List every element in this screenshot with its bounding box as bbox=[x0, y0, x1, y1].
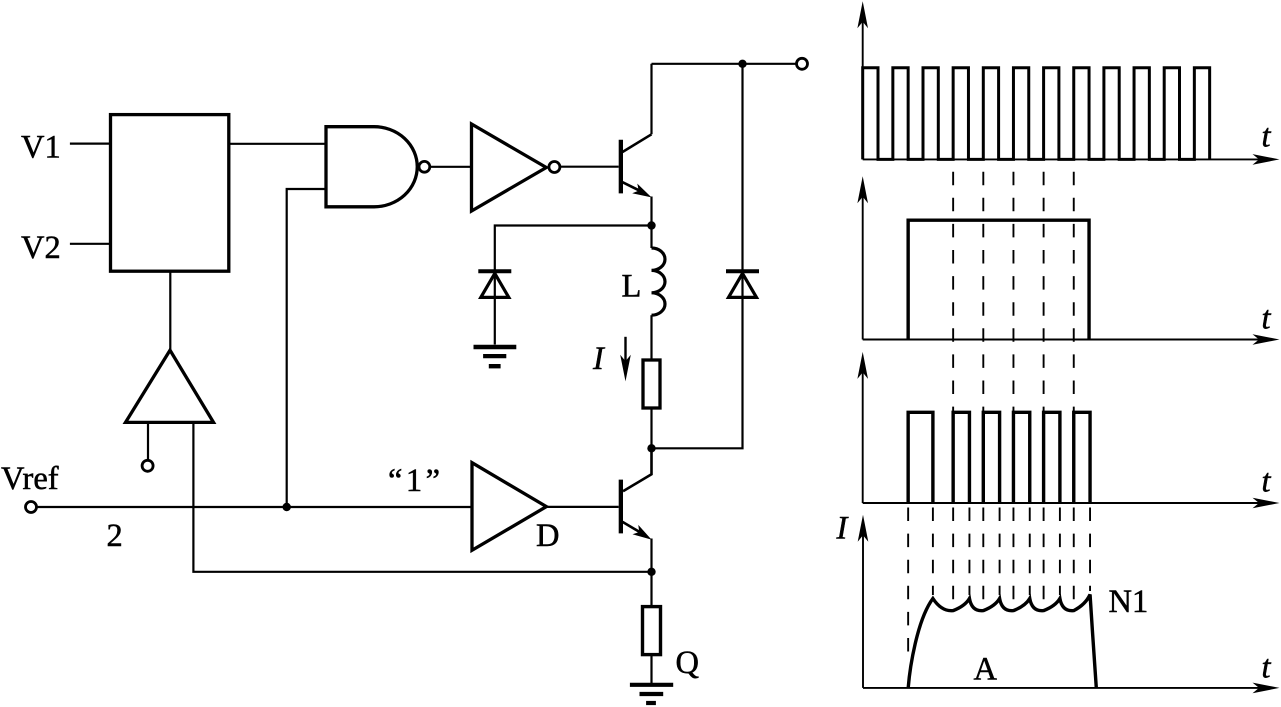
control block U1 bbox=[111, 115, 229, 272]
svg-text:I: I bbox=[836, 511, 850, 547]
buffer U4 bbox=[472, 463, 546, 551]
ground GND2 bbox=[630, 685, 673, 703]
wire Vref rail bbox=[36, 506, 472, 508]
inductor L1 bbox=[652, 226, 666, 361]
ground GND1 bbox=[474, 347, 517, 366]
axis plot3 vertical bbox=[857, 352, 868, 503]
svg-text:Q: Q bbox=[676, 645, 699, 681]
svg-text:A: A bbox=[974, 651, 998, 687]
svg-text:V2: V2 bbox=[21, 230, 61, 266]
wire inverter to Q1 base bbox=[560, 166, 619, 168]
wire buffer to Q2 base bbox=[546, 506, 618, 508]
axis plot2 vertical bbox=[857, 176, 868, 339]
wire Q1 collector up bbox=[650, 64, 652, 135]
waveform inductor current plot4 bbox=[908, 595, 1096, 688]
axis plot1 vertical bbox=[857, 1, 868, 159]
wire comparator input stub bbox=[147, 422, 149, 460]
terminal Vref bbox=[26, 502, 37, 513]
terminal comparator input bbox=[142, 460, 153, 471]
node Q2 emitter junction bbox=[647, 568, 655, 576]
resistor R2 bbox=[643, 607, 661, 655]
wire comparator to bottom rail bbox=[193, 422, 651, 571]
wire Q2 collector bbox=[623, 448, 652, 491]
svg-text:L: L bbox=[622, 269, 642, 305]
label I with arrow bbox=[592, 337, 631, 382]
wire R2 to ground bbox=[650, 655, 652, 683]
wire Q1 emitter down bbox=[650, 197, 652, 226]
svg-text:D: D bbox=[536, 518, 559, 554]
terminal output bbox=[797, 58, 808, 69]
svg-text:I: I bbox=[592, 341, 606, 377]
wire to clamp diode D1 and ground bbox=[495, 226, 652, 345]
wire top rail bbox=[652, 63, 797, 65]
axis plot3 horizontal bbox=[863, 498, 1280, 509]
node L top junction bbox=[647, 221, 655, 229]
svg-text:t: t bbox=[1262, 650, 1272, 686]
wire node to resistor R2 bbox=[650, 572, 652, 607]
axis plot1 horizontal bbox=[863, 154, 1280, 165]
waveform gated pulses plot3 bbox=[908, 412, 1090, 503]
resistor R1 bbox=[643, 360, 660, 408]
svg-text:Vref: Vref bbox=[1, 461, 59, 497]
node R1 bottom junction bbox=[647, 444, 655, 452]
node Vref junction bbox=[283, 503, 291, 511]
axis plot4 horizontal bbox=[863, 683, 1280, 694]
waveform gate pulse plot2 bbox=[908, 220, 1089, 339]
svg-text:2: 2 bbox=[107, 518, 123, 554]
wire U1 to NAND input A bbox=[229, 143, 326, 145]
svg-text:t: t bbox=[1262, 464, 1272, 500]
svg-text:N1: N1 bbox=[1109, 584, 1149, 620]
svg-text:t: t bbox=[1262, 118, 1272, 154]
diode D2 bbox=[726, 271, 759, 297]
wire R1 to node bbox=[650, 408, 652, 448]
comparator A1 bbox=[126, 350, 214, 422]
axis plot2 horizontal bbox=[863, 334, 1280, 345]
wire Q2 emitter down bbox=[650, 539, 652, 572]
NAND gate U2 bbox=[326, 127, 417, 207]
waveform clock pulses plot1 bbox=[863, 68, 1210, 160]
wire U1 to comparator bbox=[169, 271, 171, 350]
transistor Q1 bbox=[621, 134, 652, 197]
wire NAND to inverter bbox=[430, 166, 472, 168]
transistor Q2 bbox=[621, 480, 652, 540]
axis plot4 vertical bbox=[858, 515, 869, 688]
svg-text:“1”: “1” bbox=[388, 463, 444, 499]
dashed lines plot1 to plot3 bbox=[953, 172, 1074, 411]
wire NAND input B from Vref node bbox=[287, 189, 326, 507]
svg-text:t: t bbox=[1262, 301, 1272, 337]
wire V1 input bbox=[70, 143, 111, 145]
wire right branch down through diode D2 bbox=[652, 64, 743, 449]
diode D1 bbox=[478, 271, 511, 297]
wire V2 input bbox=[70, 243, 111, 245]
node top rail junction bbox=[738, 60, 746, 68]
inverter U3 bbox=[472, 124, 547, 211]
svg-text:V1: V1 bbox=[21, 130, 61, 166]
dashed lines plot3 to current curve bbox=[908, 508, 1090, 655]
